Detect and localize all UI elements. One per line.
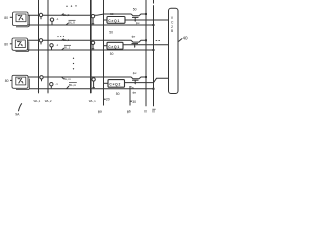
svg-text:9A: 9A bbox=[15, 113, 20, 117]
driver box 80 row2 inner bbox=[15, 40, 25, 48]
wire bit line BL0 row1 bbox=[28, 14, 146, 16]
leader label 30 bbox=[130, 100, 132, 102]
wire bit line /BL0 row1 bbox=[28, 24, 154, 26]
word line end tick WL2 bbox=[47, 92, 48, 94]
leader label 20 bbox=[104, 98, 106, 100]
svg-text:50: 50 bbox=[110, 12, 114, 16]
label /BL1 bbox=[64, 45, 71, 49]
label leader BL0 bbox=[62, 14, 64, 16]
svg-text:BL,1: BL,1 bbox=[63, 38, 70, 42]
driver box 80 row1 inner bbox=[16, 14, 26, 22]
driver glyph row3 bbox=[18, 78, 24, 83]
junction row2 BL to data line bbox=[145, 39, 147, 41]
memory cell row3 coln bbox=[92, 78, 95, 88]
memory cell row2 coln bbox=[91, 41, 94, 49]
svg-text:80: 80 bbox=[4, 16, 8, 20]
memory cell row2 col2 bbox=[50, 44, 53, 50]
svg-text:80: 80 bbox=[4, 42, 8, 46]
svg-text:WL,n: WL,n bbox=[89, 99, 96, 103]
driver glyph row1 bbox=[18, 15, 24, 20]
ellipsis top row1 bbox=[66, 5, 76, 7]
wire bit line /BL1 row2 bbox=[28, 49, 154, 51]
wire row1 equalizer output to buffer bbox=[125, 19, 169, 21]
label leader /BLm bbox=[67, 86, 70, 89]
driver box 80 row2 shadow bbox=[16, 41, 29, 51]
memory cell row2 col1 bbox=[39, 39, 42, 45]
svg-text:B: B bbox=[171, 29, 174, 33]
clock line phi-a (20) bbox=[103, 0, 105, 106]
equalizer box 50 row3 stub bbox=[104, 82, 109, 84]
ellipsis dashes right of data line row2 bbox=[156, 39, 160, 41]
equalizer box 50 row1 stub bbox=[104, 19, 108, 21]
svg-text:30: 30 bbox=[132, 100, 136, 104]
svg-text:I0: I0 bbox=[152, 110, 155, 114]
label I0 bar bbox=[152, 109, 155, 114]
equalizer box 50 row2 bbox=[107, 42, 123, 49]
junction row1 BL to data line bbox=[145, 13, 147, 15]
driver box 80 row1 bbox=[13, 12, 29, 26]
data line I/O complement bbox=[153, 0, 155, 4]
driver box 80 row3 inner bbox=[16, 77, 26, 85]
svg-text:80: 80 bbox=[5, 79, 9, 83]
memory cell row3 col2 bbox=[50, 83, 53, 89]
equalizer box 50 row2 stub bbox=[104, 45, 108, 47]
svg-text:C≠Q1: C≠Q1 bbox=[108, 45, 120, 49]
svg-text:WL,1: WL,1 bbox=[34, 99, 41, 103]
word line end tick WLn bbox=[90, 92, 92, 94]
label dash 80 row1 bbox=[10, 16, 13, 18]
svg-text:ϕa: ϕa bbox=[98, 110, 102, 114]
label leader /BL1 bbox=[62, 48, 65, 50]
label leader BLm bbox=[62, 77, 64, 79]
svg-text:BL,0: BL,0 bbox=[69, 21, 76, 25]
svg-text:I0: I0 bbox=[144, 110, 147, 114]
svg-text:-1: -1 bbox=[55, 82, 58, 86]
svg-text:BL,1: BL,1 bbox=[64, 46, 71, 50]
svg-text:40: 40 bbox=[183, 36, 189, 41]
svg-text:Tw: Tw bbox=[130, 85, 133, 89]
equalizer box 50 row1 bbox=[107, 17, 125, 24]
label /BL0 bbox=[69, 20, 76, 24]
label dash 80 row3 bbox=[10, 79, 12, 81]
driver box 80 row1 shadow bbox=[16, 15, 29, 27]
wire bit line BLm row3 bbox=[28, 77, 146, 79]
driver box 80 row3 shadow bbox=[16, 79, 29, 90]
memory cell row3 col1 bbox=[40, 76, 43, 82]
svg-text:50: 50 bbox=[133, 8, 137, 12]
wire row3 equalizer output to buffer bbox=[125, 78, 169, 82]
svg-text:ϕw: ϕw bbox=[133, 71, 138, 75]
driver box 80 row2 bbox=[12, 38, 28, 50]
junction row3 /BL to data line bbox=[153, 88, 155, 90]
label leader /BL0 bbox=[66, 23, 69, 25]
wire row2 equalizer output to buffer bbox=[123, 44, 169, 46]
junction row3 BL to data line bbox=[145, 76, 147, 78]
figure pointer 9A bbox=[18, 103, 21, 111]
label dash 80 row2 bbox=[10, 43, 12, 45]
data line I/O true bbox=[145, 0, 147, 106]
svg-text:50: 50 bbox=[116, 92, 120, 96]
word line end tick WL1 bbox=[38, 92, 39, 94]
svg-text:ϕb: ϕb bbox=[127, 110, 131, 114]
ellipsis top row2 bbox=[57, 36, 64, 37]
svg-text:BL,0: BL,0 bbox=[63, 13, 70, 17]
wire bit line BL1 row2 bbox=[28, 40, 147, 42]
svg-text:50: 50 bbox=[110, 52, 114, 56]
svg-text:20: 20 bbox=[106, 98, 110, 102]
memory cell row1 coln bbox=[91, 15, 94, 24]
word line WLn (heavy) bbox=[90, 0, 92, 93]
memory cell row1 col2 bbox=[50, 18, 53, 25]
svg-text:ϕw: ϕw bbox=[132, 91, 137, 95]
svg-text:C≠Q1: C≠Q1 bbox=[108, 19, 120, 23]
ellipsis vertical between rows bbox=[73, 58, 74, 70]
svg-text:C≠Q2: C≠Q2 bbox=[109, 83, 121, 87]
transistor gate row2 bbox=[132, 44, 139, 48]
memory cell row1 col1 bbox=[39, 13, 42, 19]
svg-text:WL,2: WL,2 bbox=[45, 99, 52, 103]
buffer vertical text bbox=[171, 16, 174, 33]
output buffer box 40 bbox=[169, 8, 179, 93]
junction row2 /BL to data line bbox=[153, 49, 155, 51]
svg-text:BL,m: BL,m bbox=[64, 77, 72, 81]
label /BLm bbox=[69, 83, 77, 87]
leader label 40 bbox=[179, 39, 183, 42]
svg-text:BL,m: BL,m bbox=[69, 83, 77, 87]
svg-text:ϕw: ϕw bbox=[132, 35, 137, 39]
word line WL1 bbox=[38, 0, 40, 93]
equalizer box 50 row3 bbox=[108, 80, 125, 88]
wire bit line /BLm row3 bbox=[29, 88, 154, 90]
svg-text:-1: -1 bbox=[56, 43, 59, 47]
svg-text:50: 50 bbox=[109, 31, 113, 35]
junction row1 /BL to data line bbox=[153, 24, 155, 26]
transistor gate row1 bbox=[132, 17, 139, 22]
label leader BL1 bbox=[62, 39, 64, 41]
svg-text:ϕw: ϕw bbox=[136, 21, 140, 25]
transistor gate row3 bbox=[132, 80, 139, 84]
clock line phi-b (30) bbox=[129, 86, 131, 106]
svg-text:-1: -1 bbox=[56, 17, 59, 21]
driver box 80 row3 bbox=[12, 75, 28, 88]
driver glyph row2 bbox=[17, 41, 23, 46]
word line WL2 bbox=[47, 0, 49, 93]
